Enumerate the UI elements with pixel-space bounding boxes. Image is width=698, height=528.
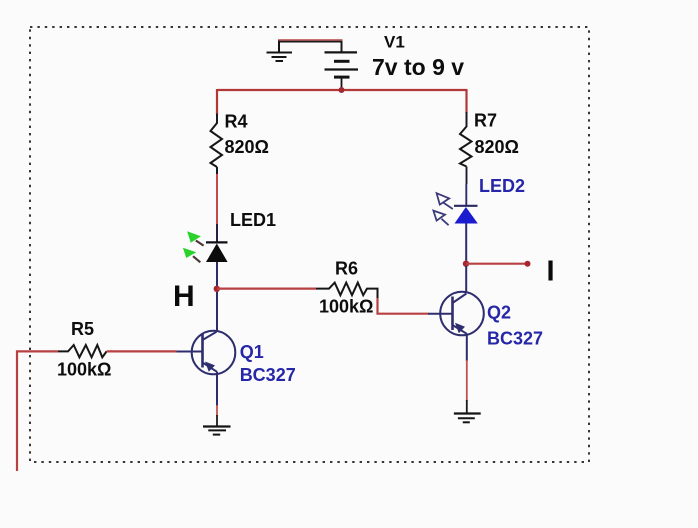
- svg-text:Q1: Q1: [240, 342, 264, 362]
- svg-text:I: I: [547, 256, 555, 288]
- node H: [214, 286, 220, 292]
- wire R4 to LED1: [216, 167, 218, 242]
- LED LED1: [206, 242, 228, 262]
- svg-text:820Ω: 820Ω: [225, 137, 269, 157]
- svg-text:LED2: LED2: [479, 176, 525, 196]
- LED LED2: [454, 206, 478, 224]
- wire battery top (ground to V1): [278, 40, 343, 52]
- wire R6 to Q2 base: [378, 298, 429, 314]
- svg-text:820Ω: 820Ω: [475, 137, 519, 157]
- svg-text:BC327: BC327: [240, 365, 296, 385]
- svg-text:Q2: Q2: [487, 303, 511, 323]
- svg-text:R7: R7: [474, 111, 497, 131]
- wire node I to terminal: [466, 263, 528, 265]
- wire node H to Q1 collector: [216, 292, 218, 332]
- wire LED1 to node H: [216, 262, 218, 292]
- ground GND2 (Q1 emitter): [203, 427, 231, 435]
- LED2 light arrows: [433, 193, 452, 225]
- node I: [463, 261, 469, 267]
- wire LED2 to node I: [465, 224, 467, 267]
- ground GND1 (battery negative): [267, 40, 293, 61]
- svg-text:R4: R4: [225, 112, 248, 132]
- svg-text:LED1: LED1: [230, 210, 276, 230]
- transistor Q2: [428, 292, 484, 336]
- svg-text:R6: R6: [335, 259, 358, 279]
- resistor R4: [211, 123, 223, 167]
- wire R5 to Q1 base: [107, 350, 177, 352]
- wire R7 to LED2: [466, 167, 468, 185]
- LED1 light arrows: [183, 231, 204, 262]
- junction battery to rail: [339, 87, 345, 93]
- resistor R5: [58, 345, 107, 357]
- resistor R6: [316, 283, 378, 300]
- terminal I: [525, 261, 531, 267]
- svg-text:V1: V1: [384, 33, 405, 52]
- svg-text:100kΩ: 100kΩ: [319, 297, 373, 317]
- svg-text:H: H: [173, 280, 195, 313]
- svg-text:R5: R5: [71, 319, 94, 339]
- wire Q2 emitter to ground: [466, 334, 468, 414]
- svg-text:100kΩ: 100kΩ: [57, 359, 111, 379]
- resistor R7: [460, 127, 472, 167]
- wire node H red stub: [216, 289, 218, 297]
- wire positive rail: [217, 89, 467, 91]
- wire rail to R7: [465, 89, 467, 127]
- battery V1: [325, 52, 359, 90]
- wire Q1 emitter to ground: [216, 372, 218, 427]
- svg-text:BC327: BC327: [487, 329, 543, 349]
- wire node H to R6: [217, 288, 316, 290]
- svg-text:7v to 9 v: 7v to 9 v: [372, 54, 464, 80]
- wire external left to R5: [17, 351, 58, 471]
- transistor Q1: [176, 331, 235, 375]
- wire rail to R4: [216, 89, 218, 124]
- wire node I to Q2 collector: [465, 266, 467, 293]
- ground GND3 (Q2 emitter): [454, 414, 481, 423]
